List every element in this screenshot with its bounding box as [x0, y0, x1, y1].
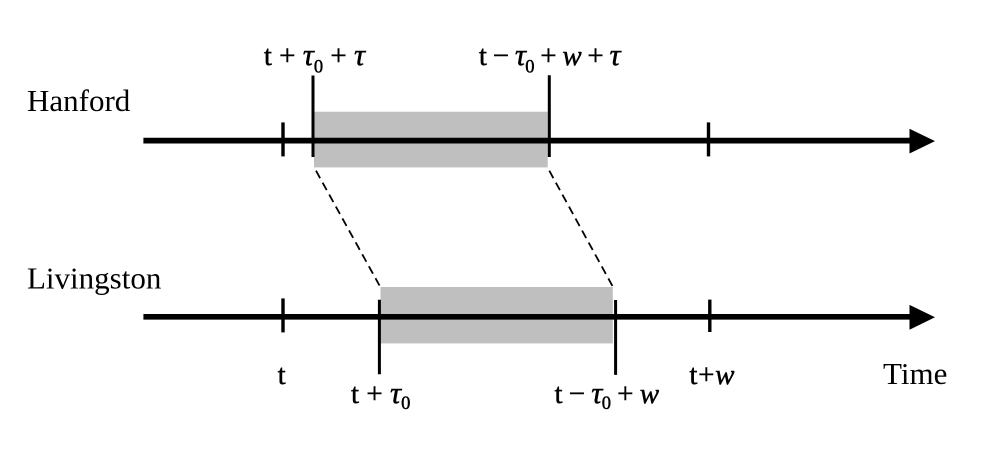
svg-text:t − τ0 + w: t − τ0 + w [555, 375, 660, 414]
svg-text:Livingston: Livingston [27, 261, 162, 296]
svg-text:t: t [278, 359, 286, 391]
svg-text:t+w: t+w [689, 359, 735, 391]
svg-text:t + τ0 + τ: t + τ0 + τ [264, 37, 367, 78]
svg-text:Hanford: Hanford [27, 83, 131, 118]
svg-text:t − τ0 + w + τ: t − τ0 + w + τ [479, 37, 623, 78]
svg-text:Time: Time [883, 356, 947, 391]
svg-text:t + τ0: t + τ0 [351, 375, 410, 414]
